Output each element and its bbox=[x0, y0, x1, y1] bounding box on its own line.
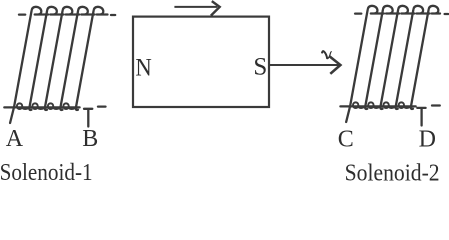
solenoid-1 bottom loop of turn 4 bbox=[63, 103, 68, 109]
solenoid-1 bottom loop of turn 1 bbox=[17, 103, 22, 109]
svg-text:B: B bbox=[82, 126, 98, 152]
velocity arrow from S pole: shaft bbox=[270, 64, 339, 66]
solenoid-2 bottom loop of turn 3 bbox=[383, 102, 388, 108]
solenoid-1 top-right dash of dashed wire end bbox=[111, 14, 115, 16]
svg-text:A: A bbox=[6, 126, 24, 152]
solenoid-1 turn 3: front wire and top loop bbox=[45, 7, 79, 110]
motion arrow above magnet: open arrowhead bbox=[211, 1, 220, 16]
solenoid-2 turn 3: front wire and top loop bbox=[380, 6, 414, 109]
solenoid-2 bottom wire sag between loops 3 and 4 bbox=[389, 107, 395, 108]
solenoid-1 terminal B lead (T-shape) bbox=[84, 109, 92, 127]
solenoid-1 bottom-right dash of dashed wire end bbox=[98, 105, 106, 107]
solenoid-1 turn 4: front wire and top loop bbox=[60, 7, 94, 110]
svg-text:D: D bbox=[419, 126, 436, 152]
solenoid-2 top-right dash of dashed wire end bbox=[445, 13, 449, 15]
solenoid-1 bottom wire sag between loops 4 and 5 bbox=[69, 108, 76, 109]
solenoid-2 turn 4: front wire and top loop bbox=[396, 6, 430, 109]
solenoid-2 bottom wire sag between loops 4 and 5 bbox=[404, 107, 410, 108]
solenoid-2 bottom-right dash of dashed wire end bbox=[432, 104, 440, 106]
solenoid-2 turn 1: front wire and top loop bbox=[346, 6, 384, 122]
solenoid-1 bottom wire across turns bbox=[4, 106, 79, 108]
svg-text:S: S bbox=[253, 54, 267, 81]
motion arrow above magnet: shaft bbox=[174, 6, 217, 8]
solenoid-2 turn 2: front wire and top loop bbox=[365, 6, 399, 109]
solenoid-1 top-left dash of dashed wire end bbox=[19, 13, 25, 15]
solenoid-1 bottom loop of turn 3 bbox=[48, 103, 53, 109]
svg-text:N: N bbox=[135, 55, 151, 82]
velocity arrow: open arrowhead bbox=[330, 56, 341, 73]
solenoid-1 bottom loop of turn 2 bbox=[32, 103, 37, 109]
solenoid-2 top-left dash of dashed wire end bbox=[355, 12, 361, 14]
svg-text:Solenoid-1: Solenoid-1 bbox=[0, 160, 93, 185]
svg-text:C: C bbox=[338, 126, 354, 152]
solenoid-1 turn 5: front wire and top loop bbox=[76, 7, 108, 110]
solenoid-1 bottom wire sag between loops 2 and 3 bbox=[38, 108, 45, 109]
solenoid-2 turn 5: front wire and top loop bbox=[411, 6, 440, 109]
solenoid-1 turn 2: front wire and top loop bbox=[29, 7, 63, 110]
bar magnet outline bbox=[133, 17, 269, 107]
solenoid-2 bottom wire across turns bbox=[340, 105, 415, 107]
solenoid-2 bottom loop of turn 4 bbox=[399, 102, 404, 108]
velocity label v bbox=[322, 51, 332, 59]
solenoid-2 bottom loop of turn 1 bbox=[353, 102, 358, 108]
solenoid-2 bottom loop of turn 2 bbox=[368, 102, 373, 108]
solenoid-1 bottom wire sag between loops 3 and 4 bbox=[53, 108, 60, 109]
solenoid-2 bottom wire sag between loops 2 and 3 bbox=[374, 107, 380, 108]
svg-text:Solenoid-2: Solenoid-2 bbox=[345, 161, 440, 186]
solenoid-2 bottom wire sag between loops 1 and 2 bbox=[358, 107, 364, 108]
solenoid-1 bottom wire sag between loops 1 and 2 bbox=[22, 108, 29, 109]
solenoid-2 terminal D lead (T-shape) bbox=[417, 108, 425, 126]
solenoid-1 turn 1: front wire and top loop bbox=[10, 7, 48, 123]
